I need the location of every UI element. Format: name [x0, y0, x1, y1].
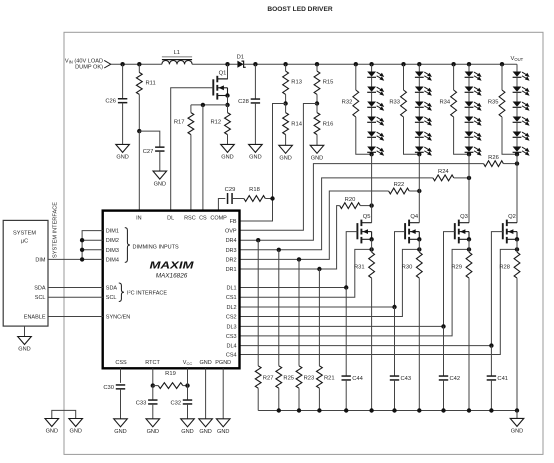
- svg-text:GND: GND: [114, 429, 126, 435]
- svg-text:DL3: DL3: [227, 324, 237, 330]
- LED string 4 (6 LEDs): [513, 64, 530, 156]
- svg-text:DIMMING INPUTS: DIMMING INPUTS: [133, 245, 179, 251]
- svg-text:SCL: SCL: [106, 295, 117, 301]
- node DR branch dot: [256, 238, 260, 242]
- node DR branch dot: [297, 257, 301, 261]
- node string 2 bottom: [417, 152, 421, 156]
- svg-text:SYNC/EN: SYNC/EN: [106, 315, 130, 321]
- node R24 at string bottom: [467, 176, 471, 180]
- svg-text:DUMP OK): DUMP OK): [75, 65, 103, 71]
- resistor R11: [136, 64, 155, 131]
- ground for bottom rail: [510, 411, 524, 435]
- svg-text:CS3: CS3: [226, 334, 237, 340]
- svg-text:Q2: Q2: [508, 214, 516, 220]
- ground for C32/VCC: [181, 419, 195, 435]
- IC left pin labels: [106, 229, 130, 321]
- svg-text:Q4: Q4: [410, 214, 419, 220]
- wire DR net down to R27: [257, 240, 259, 366]
- svg-text:R33: R33: [389, 100, 400, 106]
- resistor R17: [174, 105, 194, 211]
- svg-text:COMP: COMP: [210, 215, 227, 221]
- resistor R35 (string 4 parallel): [488, 64, 517, 154]
- capacitor C43: [390, 307, 411, 411]
- svg-text:C33: C33: [136, 401, 147, 407]
- svg-text:GND: GND: [249, 155, 261, 161]
- ground for C33: [146, 419, 160, 435]
- svg-text:C29: C29: [225, 187, 236, 193]
- svg-text:R21: R21: [324, 376, 335, 382]
- wire DR pin to R24: [240, 178, 433, 250]
- svg-text:SYSTEM: SYSTEM: [13, 231, 36, 237]
- svg-text:GND: GND: [46, 429, 58, 435]
- resistor R28: [499, 252, 520, 410]
- wire source to R29: [468, 239, 470, 252]
- svg-text:R34: R34: [439, 100, 450, 106]
- svg-text:DR2: DR2: [226, 257, 237, 263]
- wire string 2 bottom to Q drain: [418, 154, 420, 223]
- wire OVP divider tap to OVP pin: [240, 104, 318, 231]
- resistor R20: [340, 197, 372, 209]
- wire DR net down to R23: [298, 259, 300, 365]
- svg-text:CS2: CS2: [226, 315, 237, 321]
- svg-text:VOUT: VOUT: [511, 56, 524, 62]
- svg-text:R12: R12: [210, 119, 221, 125]
- wire CS pin to Q2 source sense: [240, 249, 518, 354]
- svg-text:GND: GND: [199, 429, 211, 435]
- title BOOST LED DRIVER: [267, 6, 332, 13]
- resistor R19: [153, 371, 188, 389]
- wire FB divider tap to FB pin: [240, 104, 286, 222]
- block SYSTEM uC: [3, 220, 48, 326]
- node DR branch dot: [277, 248, 281, 252]
- svg-text:DL1: DL1: [227, 286, 237, 292]
- wire dual ground tie: [52, 410, 76, 418]
- wire SCL: [48, 296, 103, 298]
- svg-text:R29: R29: [451, 264, 462, 270]
- ground for R14: [279, 145, 293, 161]
- svg-text:Q5: Q5: [363, 214, 371, 220]
- resistor R23: [296, 366, 314, 411]
- op-amp U1 MAX16826 IC body: [103, 211, 240, 369]
- svg-text:DIM4: DIM4: [106, 257, 119, 263]
- wire DR pin to R20: [240, 206, 340, 269]
- capacitor C29: [225, 187, 236, 204]
- svg-text:GND: GND: [217, 429, 229, 435]
- node Q5 source: [369, 237, 373, 241]
- node sense tap Q4: [417, 247, 421, 251]
- label DIMMING INPUTS with brace: [125, 228, 179, 263]
- resistor R24: [433, 169, 469, 181]
- svg-text:GND: GND: [279, 156, 291, 162]
- svg-text:GND: GND: [199, 360, 211, 366]
- resistor R33 (string 2 parallel): [389, 64, 419, 154]
- svg-text:R19: R19: [165, 371, 176, 377]
- wire PGND pin down: [222, 368, 224, 419]
- ground for C30: [114, 419, 128, 435]
- capacitor C32: [170, 386, 192, 419]
- svg-text:C32: C32: [170, 401, 181, 407]
- svg-text:R28: R28: [499, 264, 510, 270]
- svg-text:Q1: Q1: [219, 70, 227, 76]
- resistor R29: [451, 252, 472, 410]
- svg-text:IN: IN: [136, 215, 142, 221]
- wire VIN rail to L1: [111, 63, 162, 65]
- svg-text:VCC: VCC: [183, 360, 193, 366]
- svg-text:CS1: CS1: [226, 295, 237, 301]
- node string 4 bottom: [515, 152, 519, 156]
- ground for C27: [153, 171, 167, 187]
- transistor Q5: [357, 214, 371, 243]
- capacitor C30: [103, 385, 125, 419]
- inductor L1: [162, 50, 192, 64]
- svg-text:GND: GND: [154, 181, 166, 187]
- svg-text:R26: R26: [488, 155, 499, 161]
- wire ENABLE to SYNC/EN: [48, 316, 103, 318]
- svg-text:DL: DL: [167, 215, 174, 221]
- node R13/R14 junction: [283, 101, 287, 105]
- transistor Q1: [213, 70, 227, 99]
- svg-text:R20: R20: [345, 197, 356, 203]
- IC bottom pin labels: [115, 360, 231, 366]
- node CS tap: [201, 103, 205, 107]
- diode D1 (schottky): [237, 54, 246, 68]
- junctions on top rail: [120, 62, 504, 66]
- ground for C26: [116, 144, 130, 160]
- capacitor C27: [143, 147, 165, 171]
- resistor R13: [283, 64, 302, 103]
- node sense tap Q2: [515, 247, 519, 251]
- ground for GND pin: [199, 419, 213, 435]
- label SYSTEM INTERFACE (vertical): [53, 202, 59, 258]
- IC logo MAXIM: [150, 260, 194, 272]
- ground for PGND pin: [216, 419, 230, 435]
- wire L1 to D1 anode: [192, 63, 237, 65]
- svg-text:MAX16826: MAX16826: [156, 273, 188, 280]
- svg-text:Q3: Q3: [460, 214, 468, 220]
- wire COMP pin to C29: [218, 199, 225, 211]
- junctions on DIM branch: [80, 238, 84, 262]
- svg-text:R25: R25: [283, 376, 294, 382]
- wire CS tap to CS pin: [202, 105, 204, 211]
- svg-text:RTCT: RTCT: [145, 360, 160, 366]
- wire D1 cathode along top rail to VOUT corner: [244, 63, 517, 65]
- capacitor C33: [136, 386, 158, 419]
- wire DIM to DIM4 and branch: [48, 231, 103, 260]
- wire source to R30: [418, 239, 420, 252]
- resistor R22: [389, 182, 420, 194]
- node string 1 bottom: [369, 152, 373, 156]
- ground for C28: [249, 144, 263, 160]
- svg-text:R14: R14: [291, 122, 302, 128]
- svg-text:R16: R16: [323, 122, 334, 128]
- transistor Q4: [405, 214, 419, 243]
- node VOUT: [511, 56, 524, 62]
- svg-text:DR3: DR3: [226, 248, 237, 254]
- node Q3 source: [467, 237, 471, 241]
- resistor R32 (string 1 parallel): [342, 64, 372, 154]
- svg-text:SDA: SDA: [106, 286, 118, 292]
- wire DR pin to R26: [240, 164, 484, 241]
- wire bottom PGND rail: [258, 410, 517, 412]
- svg-text:DL2: DL2: [227, 305, 237, 311]
- svg-text:SYSTEM INTERFACE: SYSTEM INTERFACE: [53, 202, 59, 258]
- svg-text:GND: GND: [147, 429, 159, 435]
- svg-text:ENABLE: ENABLE: [24, 315, 46, 321]
- wire VCC pin down: [187, 368, 189, 385]
- wire sense node to R17 and CS pin: [191, 104, 228, 106]
- svg-text:C26: C26: [105, 99, 116, 105]
- svg-text:R11: R11: [146, 80, 156, 86]
- svg-text:DIM1: DIM1: [106, 229, 119, 235]
- resistor R25: [276, 366, 294, 411]
- resistor R15: [314, 64, 333, 103]
- svg-text:D1: D1: [237, 54, 244, 60]
- node R11 bottom junction: [137, 129, 141, 133]
- node R20 at string bottom: [369, 203, 373, 207]
- node VIN input arrow: [65, 58, 111, 70]
- svg-text:DIM: DIM: [35, 257, 46, 263]
- node DL3 junction: [441, 324, 445, 328]
- svg-text:C41: C41: [497, 376, 508, 382]
- wire source to R31: [371, 239, 373, 252]
- node sense junction at Q1 source: [225, 103, 229, 107]
- node DL1 junction: [344, 285, 348, 289]
- svg-text:GND: GND: [18, 347, 30, 353]
- svg-text:C42: C42: [450, 376, 461, 382]
- resistor R21: [317, 366, 335, 411]
- wire Q1 source down to sense node: [227, 96, 229, 105]
- node R22 at string bottom: [417, 189, 421, 193]
- capacitor C26: [105, 64, 127, 144]
- resistor R34 (string 3 parallel): [439, 64, 469, 154]
- label I2C INTERFACE with brace: [119, 283, 168, 302]
- node R26 at string bottom: [515, 161, 519, 165]
- svg-text:MAXIM: MAXIM: [150, 260, 194, 272]
- svg-text:RSC: RSC: [184, 215, 196, 221]
- node Q4 source: [417, 237, 421, 241]
- svg-text:R18: R18: [249, 187, 260, 193]
- ground for SYSTEM uC: [18, 326, 32, 353]
- svg-text:GND: GND: [116, 155, 128, 161]
- svg-text:PGND: PGND: [215, 360, 231, 366]
- wire DL pin to Q2 gate: [240, 232, 503, 346]
- svg-text:µC: µC: [21, 239, 28, 245]
- wire source to R28: [516, 239, 518, 252]
- svg-text:DL4: DL4: [227, 344, 237, 350]
- svg-text:VIN (40V LOAD: VIN (40V LOAD: [65, 58, 103, 64]
- svg-text:CSS: CSS: [115, 360, 127, 366]
- wire RTCT pin down: [152, 368, 154, 385]
- wire SDA: [48, 287, 103, 289]
- svg-text:GND: GND: [311, 156, 323, 162]
- IC part number MAX16826: [156, 273, 188, 280]
- wire junction to C27: [139, 131, 160, 147]
- wire CSS pin to C30: [120, 368, 122, 383]
- wire string 4 bottom to Q drain: [516, 154, 518, 223]
- svg-text:R27: R27: [263, 376, 274, 382]
- node Q2 source: [515, 237, 519, 241]
- wire string 1 bottom to Q drain: [371, 154, 373, 223]
- node R19 to VCC: [185, 383, 189, 387]
- transistor Q2: [503, 214, 517, 243]
- wire string 3 bottom to Q drain: [468, 154, 470, 223]
- schematic border frame: [64, 32, 543, 454]
- LED string 2 (6 LEDs): [415, 64, 432, 156]
- wire CS pin to Q5 source sense: [240, 249, 372, 297]
- node string 3 bottom: [467, 152, 471, 156]
- node DL4 junction: [489, 343, 493, 347]
- resistor R26: [484, 155, 517, 167]
- wire DR net down to R25: [278, 250, 280, 366]
- ground left of frame: [45, 419, 59, 435]
- wire DL pin to Q5 gate: [240, 232, 358, 288]
- node DL2 junction: [392, 305, 396, 309]
- node R15/R16 junction: [315, 101, 319, 105]
- wire DL pin to Q4 gate: [240, 232, 406, 307]
- resistor R12: [210, 105, 230, 144]
- resistor R31: [354, 252, 375, 410]
- svg-text:GND: GND: [511, 429, 523, 435]
- svg-text:R32: R32: [342, 100, 353, 106]
- svg-text:R15: R15: [323, 80, 334, 86]
- capacitor C44: [342, 288, 364, 411]
- LED string 1 (6 LEDs): [367, 64, 384, 156]
- resistor R14: [283, 104, 303, 146]
- svg-text:DIM2: DIM2: [106, 238, 119, 244]
- svg-text:DR1: DR1: [226, 267, 237, 273]
- wire DR net down to R21: [318, 269, 320, 366]
- resistor R16: [314, 104, 333, 146]
- svg-text:DR4: DR4: [226, 238, 237, 244]
- node R18 to FB net: [270, 196, 274, 200]
- svg-text:BOOST LED DRIVER: BOOST LED DRIVER: [267, 6, 332, 13]
- node sense tap Q3: [467, 247, 471, 251]
- wire rail to Q1 drain: [217, 64, 227, 79]
- svg-text:C28: C28: [238, 99, 249, 105]
- wire CS pin to Q4 source sense: [240, 249, 420, 316]
- node sense tap Q5: [369, 247, 373, 251]
- IC top pin labels: [136, 215, 227, 221]
- svg-text:R23: R23: [304, 376, 315, 382]
- capacitor C28: [238, 64, 260, 144]
- node Q1 source: [225, 93, 229, 97]
- ground for R16: [310, 145, 324, 161]
- wire DL pin to Q3 gate: [240, 232, 455, 327]
- node DR branch dot: [317, 267, 321, 271]
- wire GND pin down: [205, 368, 207, 419]
- capacitor C42: [439, 326, 460, 410]
- svg-text:I2C INTERFACE: I2C INTERFACE: [127, 290, 167, 297]
- svg-text:R30: R30: [402, 264, 413, 270]
- resistor R30: [402, 252, 423, 410]
- svg-text:GND: GND: [69, 429, 81, 435]
- svg-text:GND: GND: [181, 429, 193, 435]
- ground right of frame: [69, 419, 83, 435]
- svg-text:C43: C43: [401, 376, 412, 382]
- svg-text:CS: CS: [199, 215, 207, 221]
- svg-text:FB: FB: [230, 219, 237, 225]
- svg-text:DIM3: DIM3: [106, 248, 119, 254]
- wire CS pin to Q3 source sense: [240, 249, 470, 336]
- capacitor C41: [487, 346, 508, 411]
- svg-text:R31: R31: [354, 264, 365, 270]
- junctions on bottom rail: [277, 408, 520, 412]
- svg-text:CS4: CS4: [226, 353, 237, 359]
- wire R11 junction to IN pin: [138, 131, 140, 211]
- transistor Q3: [455, 214, 469, 243]
- svg-text:SCL: SCL: [35, 295, 46, 301]
- svg-text:L1: L1: [174, 50, 180, 56]
- resistor R18: [232, 187, 272, 201]
- wire Q1 gate to DL pin: [171, 88, 214, 211]
- svg-text:C44: C44: [352, 376, 363, 382]
- ground for R12: [221, 144, 235, 160]
- node RTCT junction: [151, 383, 155, 387]
- LED string 3 (6 LEDs): [465, 64, 482, 156]
- svg-text:GND: GND: [221, 155, 233, 161]
- resistor R27: [255, 366, 273, 411]
- IC right pin labels: [225, 219, 237, 359]
- svg-text:C27: C27: [143, 149, 154, 155]
- svg-text:R22: R22: [394, 182, 405, 188]
- svg-text:R35: R35: [488, 100, 499, 106]
- svg-text:SDA: SDA: [34, 286, 46, 292]
- svg-text:C30: C30: [103, 385, 114, 391]
- svg-text:R24: R24: [438, 169, 449, 175]
- svg-text:OVP: OVP: [225, 229, 237, 235]
- svg-text:R13: R13: [291, 80, 302, 86]
- wire DR pin to R22: [240, 191, 389, 259]
- svg-text:R17: R17: [174, 119, 185, 125]
